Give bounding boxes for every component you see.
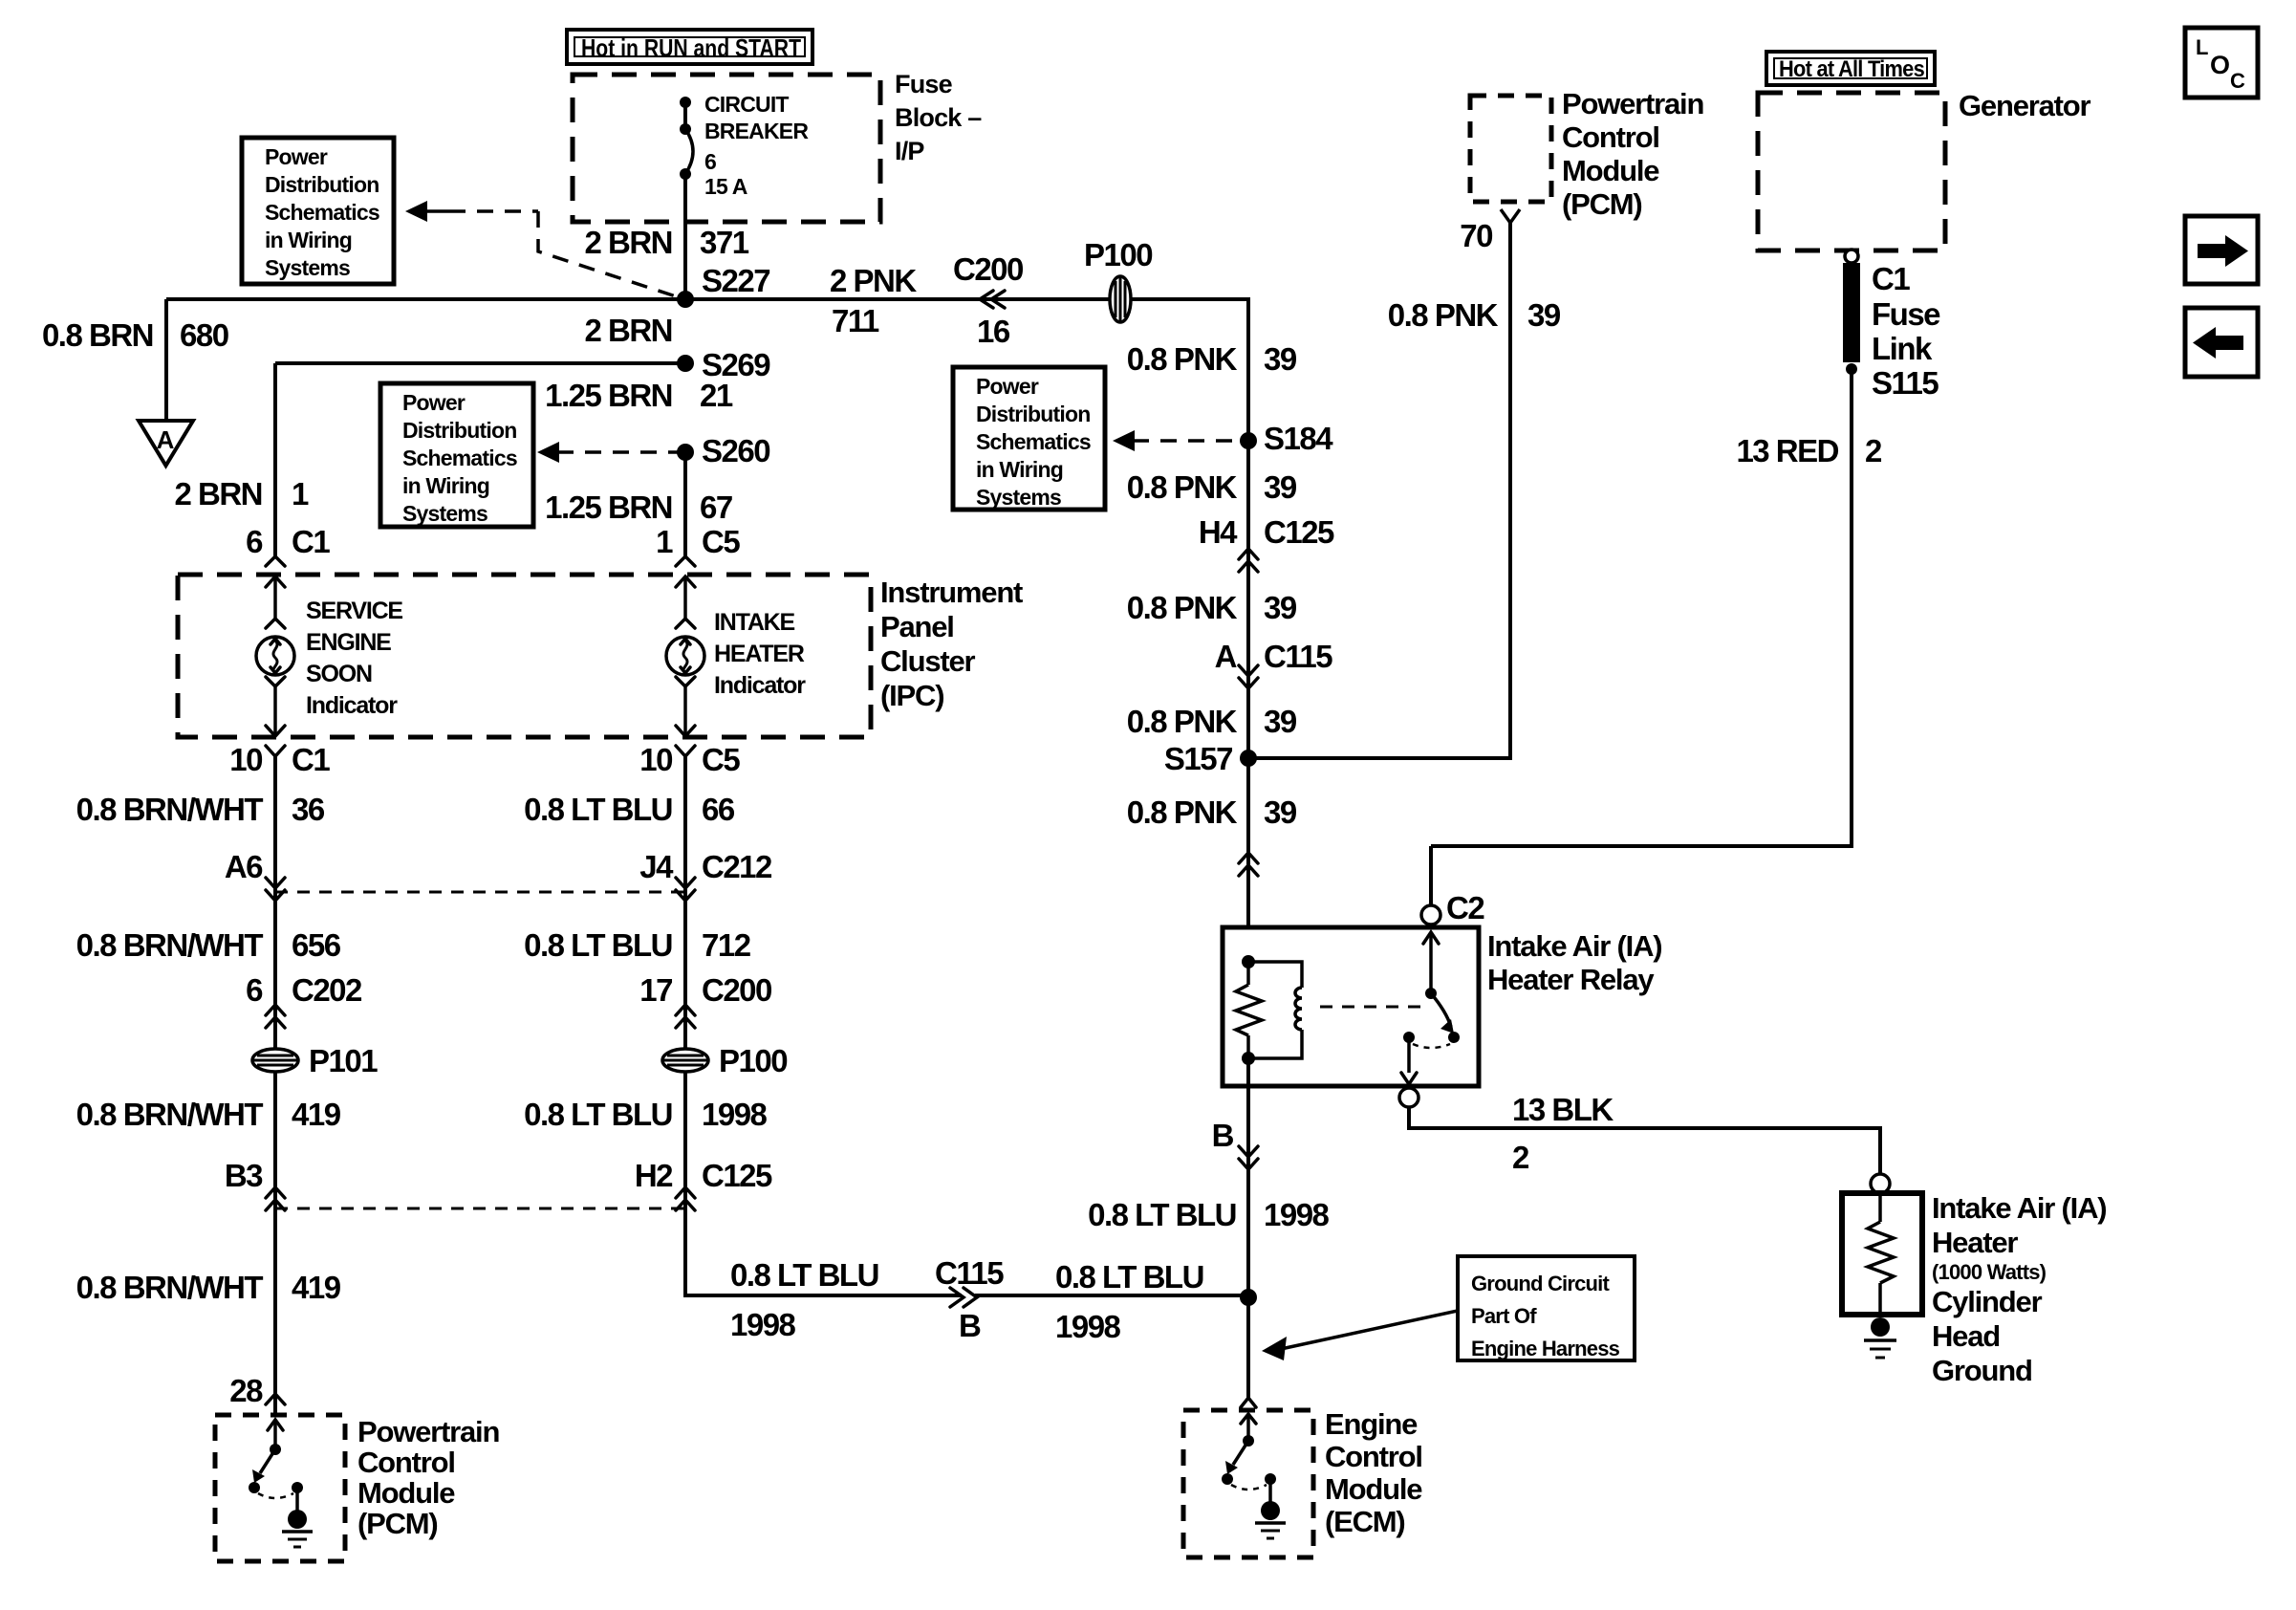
svg-text:in Wiring: in Wiring	[265, 228, 352, 252]
svg-text:Engine: Engine	[1325, 1407, 1418, 1441]
junction S260	[677, 444, 694, 461]
connector A C115	[1215, 639, 1333, 688]
svg-text:Generator: Generator	[1959, 89, 2090, 122]
Intake Air Heater Relay box	[1223, 927, 1479, 1086]
label: 2 BRN 371	[584, 225, 748, 260]
connector marks at C200	[676, 1005, 695, 1028]
svg-text:(ECM): (ECM)	[1325, 1505, 1405, 1538]
svg-text:39: 39	[1264, 469, 1297, 505]
connector mark at pin 28	[266, 1394, 285, 1404]
svg-text:Power: Power	[402, 390, 466, 415]
note box: Power Distribution Schematics (right)	[953, 367, 1105, 510]
connector marks at C202	[266, 1005, 285, 1028]
svg-text:(PCM): (PCM)	[357, 1507, 438, 1540]
svg-text:66: 66	[702, 792, 735, 827]
wire below right lamp to IPC bottom	[676, 677, 695, 736]
svg-text:Heater Relay: Heater Relay	[1487, 963, 1655, 996]
svg-text:SOON: SOON	[306, 661, 372, 687]
connector C115 on horizontal wire	[935, 1255, 1004, 1343]
label: 13 BLK 2	[1512, 1092, 1614, 1175]
dashed reference arrow from S184 to right note box	[1113, 430, 1243, 451]
svg-text:Power: Power	[976, 374, 1039, 399]
wire: S269 horizontal to left column	[275, 361, 685, 365]
relay coil	[1248, 962, 1302, 1058]
svg-text:A: A	[157, 425, 175, 454]
svg-text:INTAKE: INTAKE	[714, 609, 795, 636]
svg-text:6: 6	[246, 524, 263, 559]
label: 1.25 BRN 67	[545, 490, 732, 525]
svg-text:680: 680	[180, 317, 228, 353]
label: 0.8 LT BLU 1998 (left of C115)	[730, 1257, 878, 1342]
svg-text:Powertrain: Powertrain	[1562, 87, 1703, 120]
label: 0.8 BRN/WHT 419	[76, 1097, 341, 1132]
svg-text:39: 39	[1264, 704, 1297, 739]
legend right-arrow box	[2185, 216, 2258, 284]
connector marks at A6	[266, 878, 285, 901]
svg-text:Hot in RUN and START: Hot in RUN and START	[581, 33, 801, 62]
label: 0.8 BRN/WHT 656	[76, 927, 341, 963]
svg-text:2 BRN: 2 BRN	[174, 476, 262, 511]
label: 0.8 BRN 680	[42, 317, 228, 353]
svg-text:0.8 PNK: 0.8 PNK	[1127, 704, 1238, 739]
connector marks at B3	[266, 1187, 285, 1210]
dashed reference arrow from S227 to top-left note box	[405, 201, 679, 297]
svg-text:1998: 1998	[730, 1307, 796, 1342]
svg-text:(PCM): (PCM)	[1562, 187, 1642, 221]
relay coil branch junction (top)	[1242, 955, 1255, 968]
svg-text:Intake Air (IA): Intake Air (IA)	[1932, 1191, 2106, 1225]
svg-text:Module: Module	[357, 1476, 455, 1510]
relay coil branch junction (bottom)	[1242, 1052, 1255, 1065]
svg-text:Systems: Systems	[976, 485, 1061, 510]
svg-text:1998: 1998	[1264, 1197, 1330, 1232]
svg-text:P100: P100	[719, 1043, 787, 1078]
svg-text:CIRCUIT: CIRCUIT	[704, 92, 789, 117]
label: pin 6 connector C1	[246, 524, 330, 559]
label: 0.8 LT BLU 1998 (relay output)	[1088, 1197, 1329, 1232]
svg-text:712: 712	[702, 927, 751, 963]
label: 2 PNK 711	[830, 263, 917, 338]
svg-text:Part Of: Part Of	[1471, 1304, 1537, 1328]
svg-text:B: B	[959, 1308, 981, 1343]
label: Instrument Panel Cluster (IPC)	[880, 576, 1023, 712]
svg-text:1: 1	[292, 476, 309, 511]
svg-text:Indicator: Indicator	[714, 672, 806, 699]
svg-text:(1000 Watts): (1000 Watts)	[1932, 1260, 2047, 1284]
svg-text:6: 6	[704, 149, 716, 174]
label: C1 Fuse Link S115	[1872, 261, 1940, 401]
svg-text:Cluster: Cluster	[880, 644, 976, 678]
label: 0.8 LT BLU 712	[524, 927, 751, 963]
svg-text:Ground: Ground	[1932, 1354, 2032, 1387]
svg-text:B: B	[1212, 1118, 1234, 1153]
connector marks at J4	[676, 878, 695, 901]
cylinder head ground symbol	[1864, 1317, 1896, 1358]
svg-text:C5: C5	[702, 742, 740, 777]
circuit breaker 6 15A symbol	[680, 97, 693, 299]
svg-text:6: 6	[246, 972, 263, 1008]
relay bottom terminal	[1399, 1088, 1419, 1107]
label: 0.8 LT BLU 1998	[524, 1097, 767, 1132]
relay dashed actuation link	[1320, 1006, 1422, 1009]
Fuse Block I/P dashed box	[573, 75, 880, 222]
svg-text:C115: C115	[935, 1255, 1004, 1291]
Engine Control Module ECM dashed box	[1183, 1410, 1313, 1557]
svg-text:J4: J4	[639, 849, 674, 884]
svg-text:Ground Circuit: Ground Circuit	[1471, 1272, 1610, 1295]
wire: left drop to triangle A	[164, 299, 168, 424]
indicator lamp: SERVICE ENGINE SOON	[256, 637, 294, 675]
dashed reference arrow from S260 to middle note box	[537, 442, 679, 463]
Intake Air Heater box	[1842, 1193, 1922, 1315]
svg-text:36: 36	[292, 792, 325, 827]
svg-text:Control: Control	[357, 1446, 455, 1479]
label: 0.8 LT BLU 66	[524, 792, 735, 827]
label: 2 BRN 1 (left column)	[174, 476, 309, 511]
legend left-arrow box	[2185, 308, 2258, 377]
svg-text:656: 656	[292, 927, 341, 963]
Powertrain Control Module PCM dashed box (bottom)	[215, 1415, 345, 1561]
junction S157	[1240, 750, 1257, 767]
svg-text:0.8 PNK: 0.8 PNK	[1127, 794, 1238, 830]
svg-text:Hot at All Times: Hot at All Times	[1779, 56, 1924, 82]
label: Fuse Block - I/P	[895, 70, 982, 165]
svg-text:S115: S115	[1872, 365, 1939, 401]
svg-text:C1: C1	[1872, 261, 1910, 296]
svg-text:13 RED: 13 RED	[1736, 433, 1838, 468]
label: INTAKE HEATER Indicator	[714, 609, 806, 699]
wire: C115 to ECM junction	[975, 1294, 1248, 1297]
legend LOC box	[2185, 28, 2258, 98]
svg-text:16: 16	[977, 314, 1010, 349]
svg-text:Distribution: Distribution	[402, 418, 516, 443]
connector H4 C125	[1199, 514, 1334, 572]
relay switch	[1401, 932, 1460, 1084]
svg-text:Control: Control	[1562, 120, 1659, 154]
svg-text:BREAKER: BREAKER	[704, 119, 809, 143]
svg-text:Instrument: Instrument	[880, 576, 1023, 609]
connector marks C1 at IPC top	[266, 556, 285, 628]
grommet P100 on main wire	[1084, 237, 1152, 322]
label: 13 RED 2	[1736, 433, 1882, 468]
svg-text:39: 39	[1264, 794, 1297, 830]
label: Intake Air (IA) Heater (1000 Watts) Cylinder Head Ground	[1932, 1191, 2106, 1387]
svg-text:Schematics: Schematics	[976, 429, 1091, 454]
svg-text:371: 371	[700, 225, 749, 260]
wire below left lamp to IPC bottom	[266, 677, 285, 736]
svg-text:0.8 LT BLU: 0.8 LT BLU	[1055, 1259, 1203, 1295]
svg-text:C200: C200	[953, 251, 1023, 287]
svg-text:17: 17	[639, 972, 672, 1008]
svg-text:Fuse: Fuse	[895, 70, 953, 98]
svg-text:67: 67	[700, 490, 732, 525]
svg-text:Module: Module	[1562, 154, 1659, 187]
svg-text:Fuse: Fuse	[1872, 296, 1940, 332]
svg-text:A: A	[1215, 639, 1237, 674]
junction at ECM wire and C115 wire	[1240, 1289, 1257, 1306]
wire: relay output to IA heater	[1409, 1107, 1880, 1174]
svg-text:10: 10	[229, 742, 262, 777]
svg-text:Panel: Panel	[880, 610, 954, 643]
svg-text:A6: A6	[225, 849, 263, 884]
svg-text:C125: C125	[702, 1158, 772, 1193]
indicator lamp: INTAKE HEATER	[666, 637, 704, 675]
label: 0.8 PNK 39 (third)	[1127, 590, 1297, 625]
label: pin 10 connector C5	[639, 742, 740, 777]
label: 0.8 PNK 39 (second)	[1127, 469, 1297, 505]
svg-text:C115: C115	[1264, 639, 1332, 674]
connector marks at B	[1239, 1146, 1258, 1169]
left column wire: IPC bottom to PCM	[273, 755, 277, 1415]
svg-text:Powertrain: Powertrain	[357, 1415, 499, 1448]
ECM internal switch to ground	[1222, 1414, 1286, 1538]
wire: center column S260 to IPC	[683, 452, 687, 556]
svg-text:39: 39	[1264, 590, 1297, 625]
svg-text:ENGINE: ENGINE	[306, 629, 391, 656]
label: pin 10 connector C1	[229, 742, 330, 777]
svg-text:H2: H2	[635, 1158, 673, 1193]
svg-text:O: O	[2210, 51, 2229, 79]
svg-text:HEATER: HEATER	[714, 641, 805, 667]
label: 0.8 LT BLU 1998 (right of C115)	[1055, 1259, 1203, 1344]
svg-text:Engine Harness: Engine Harness	[1471, 1337, 1620, 1360]
svg-text:15 A: 15 A	[704, 174, 747, 199]
svg-text:0.8 LT BLU: 0.8 LT BLU	[730, 1257, 878, 1293]
center column wire: IPC bottom to C115 corner	[685, 755, 962, 1295]
label: pin 6 connector C202	[246, 972, 362, 1008]
note box: Power Distribution Schematics (middle)	[380, 383, 533, 527]
wire: junction down to ECM	[1246, 1297, 1250, 1400]
Generator dashed box	[1758, 93, 1945, 250]
Instrument Panel Cluster dashed box	[178, 575, 871, 737]
svg-text:in Wiring: in Wiring	[402, 473, 489, 498]
svg-text:C5: C5	[702, 524, 740, 559]
svg-text:1998: 1998	[702, 1097, 768, 1132]
IA heater top terminal	[1871, 1174, 1890, 1193]
svg-text:I/P: I/P	[895, 137, 924, 165]
svg-text:711: 711	[832, 303, 879, 338]
connector marks at H2	[676, 1187, 695, 1210]
label: pin H2 connector C125	[635, 1158, 772, 1193]
svg-text:2 BRN: 2 BRN	[584, 225, 672, 260]
svg-text:B3: B3	[225, 1158, 263, 1193]
wire: fuse link down and over to relay C2	[1431, 373, 1852, 846]
label: Powertrain Control Module (PCM) bottom	[357, 1415, 499, 1540]
relay resistor	[1236, 962, 1262, 1058]
label: pin J4 connector C212	[639, 849, 772, 884]
svg-text:0.8 BRN/WHT: 0.8 BRN/WHT	[76, 792, 264, 827]
wire: left column from S269 corner down to IPC	[273, 363, 277, 556]
label: 0.8 PNK 39 (fourth)	[1127, 704, 1297, 739]
label: Powertrain Control Module (PCM) top	[1562, 87, 1703, 221]
svg-text:Systems: Systems	[402, 501, 487, 526]
label: 0.8 BRN/WHT 419 (second)	[76, 1270, 341, 1305]
svg-text:Distribution: Distribution	[265, 172, 379, 197]
svg-text:Intake Air (IA): Intake Air (IA)	[1487, 929, 1661, 963]
svg-text:in Wiring: in Wiring	[976, 457, 1063, 482]
note box: Power Distribution Schematics in Wiring Systems (top-left)	[242, 138, 394, 284]
svg-text:0.8 BRN/WHT: 0.8 BRN/WHT	[76, 1270, 264, 1305]
svg-text:S227: S227	[702, 263, 769, 298]
svg-text:0.8 PNK: 0.8 PNK	[1127, 469, 1238, 505]
label: pin 1 connector C5	[656, 524, 740, 559]
svg-text:Power: Power	[265, 144, 328, 169]
PCM internal switch to ground	[249, 1420, 313, 1547]
svg-text:P100: P100	[1084, 237, 1152, 272]
wire: S157 branch to PCM pin 70	[1248, 209, 1520, 758]
svg-text:Schematics: Schematics	[402, 446, 517, 470]
svg-text:S260: S260	[702, 433, 769, 468]
svg-text:Control: Control	[1325, 1440, 1422, 1473]
connector mark below IPC left	[266, 746, 285, 756]
relay C2 terminal	[1421, 846, 1484, 925]
label: 0.8 PNK 39 (fifth)	[1127, 794, 1297, 830]
svg-text:S157: S157	[1164, 741, 1232, 776]
svg-text:1998: 1998	[1055, 1309, 1121, 1344]
wire through relay to B connector	[1246, 1058, 1250, 1297]
junction S269	[677, 355, 694, 372]
svg-text:Module: Module	[1325, 1472, 1422, 1506]
svg-text:C1: C1	[292, 524, 330, 559]
svg-text:Heater: Heater	[1932, 1226, 2018, 1259]
label: Engine Control Module (ECM)	[1325, 1407, 1422, 1538]
connector marks above relay	[1239, 853, 1258, 876]
svg-text:2: 2	[1512, 1140, 1529, 1175]
svg-text:C1: C1	[292, 742, 330, 777]
connector mark below IPC center	[676, 746, 695, 756]
label: 1.25 BRN 21	[545, 378, 733, 413]
svg-text:C125: C125	[1264, 514, 1334, 550]
svg-text:C200: C200	[702, 972, 771, 1008]
svg-text:0.8 LT BLU: 0.8 LT BLU	[1088, 1197, 1236, 1232]
svg-text:28: 28	[229, 1373, 263, 1408]
svg-text:2 PNK: 2 PNK	[830, 263, 917, 298]
junction S184	[1240, 432, 1257, 449]
svg-text:0.8 LT BLU: 0.8 LT BLU	[524, 1097, 672, 1132]
svg-text:1.25 BRN: 1.25 BRN	[545, 378, 672, 413]
svg-text:0.8 LT BLU: 0.8 LT BLU	[524, 792, 672, 827]
svg-text:0.8 BRN/WHT: 0.8 BRN/WHT	[76, 927, 264, 963]
connector C200 on main wire	[953, 251, 1023, 349]
svg-text:Cylinder: Cylinder	[1932, 1285, 2043, 1318]
connector marks at ECM entry	[1241, 1398, 1256, 1424]
svg-text:Schematics: Schematics	[265, 200, 379, 225]
svg-text:21: 21	[700, 378, 733, 413]
svg-text:419: 419	[292, 1270, 341, 1305]
svg-text:C2: C2	[1446, 890, 1484, 925]
svg-text:Distribution: Distribution	[976, 402, 1090, 426]
svg-text:419: 419	[292, 1097, 341, 1132]
arrow from ground-circuit note to wire	[1262, 1311, 1458, 1360]
grommet P101	[252, 1043, 378, 1078]
note box: Ground Circuit Part Of Engine Harness	[1458, 1256, 1635, 1360]
junction S227	[677, 291, 694, 308]
connector marks C5 at IPC top	[676, 556, 695, 628]
svg-text:Block –: Block –	[895, 103, 982, 132]
svg-text:Head: Head	[1932, 1319, 2000, 1353]
label: CIRCUIT BREAKER 6 15 A	[704, 92, 809, 199]
header box: Hot in RUN and START	[567, 30, 812, 64]
svg-text:13 BLK: 13 BLK	[1512, 1092, 1614, 1127]
svg-text:1.25 BRN: 1.25 BRN	[545, 490, 672, 525]
svg-text:(IPC): (IPC)	[880, 679, 943, 712]
label: SERVICE ENGINE SOON Indicator	[306, 598, 402, 719]
svg-text:0.8 BRN/WHT: 0.8 BRN/WHT	[76, 1097, 264, 1132]
dashed connector link B3-H2	[275, 1207, 685, 1210]
label: 0.8 PNK 39 (first)	[1127, 341, 1297, 377]
svg-text:1: 1	[656, 524, 673, 559]
label: Intake Air (IA) Heater Relay	[1487, 929, 1661, 996]
grommet P100 (lower)	[662, 1043, 787, 1078]
svg-text:0.8 BRN: 0.8 BRN	[42, 317, 153, 353]
svg-text:P101: P101	[309, 1043, 378, 1078]
main horizontal wire from left branch to right column corner	[166, 297, 1250, 301]
svg-text:2 BRN: 2 BRN	[584, 313, 672, 348]
svg-text:10: 10	[639, 742, 672, 777]
fuse link C1 S115	[1843, 263, 1860, 375]
off-page triangle A	[139, 421, 193, 466]
svg-text:Link: Link	[1872, 331, 1933, 366]
svg-text:39: 39	[1527, 297, 1561, 333]
header box: Hot at All Times	[1766, 52, 1935, 85]
svg-text:C202: C202	[292, 972, 362, 1008]
svg-text:SERVICE: SERVICE	[306, 598, 402, 624]
right column wire: corner from main wire down to relay	[1246, 299, 1250, 929]
svg-text:C: C	[2230, 69, 2245, 93]
svg-text:39: 39	[1264, 341, 1297, 377]
IA heater resistor	[1868, 1193, 1894, 1315]
svg-text:H4: H4	[1199, 514, 1238, 550]
label: 0.8 PNK 39 (PCM branch)	[1388, 297, 1561, 333]
svg-text:0.8 PNK: 0.8 PNK	[1127, 341, 1238, 377]
label: pin 17 connector C200	[639, 972, 771, 1008]
Powertrain Control Module PCM dashed box (top)	[1470, 96, 1551, 202]
svg-text:Systems: Systems	[265, 255, 350, 280]
generator output terminal	[1845, 250, 1858, 263]
svg-text:0.8 PNK: 0.8 PNK	[1388, 297, 1499, 333]
svg-text:70: 70	[1460, 218, 1492, 253]
svg-text:L: L	[2196, 35, 2208, 59]
svg-text:Indicator: Indicator	[306, 692, 398, 719]
svg-text:0.8 LT BLU: 0.8 LT BLU	[524, 927, 672, 963]
label: 0.8 BRN/WHT 36	[76, 792, 325, 827]
dashed connector link A6-J4	[275, 891, 685, 894]
svg-text:S184: S184	[1264, 421, 1333, 456]
svg-text:C212: C212	[702, 849, 772, 884]
svg-text:2: 2	[1865, 433, 1882, 468]
svg-text:0.8 PNK: 0.8 PNK	[1127, 590, 1238, 625]
